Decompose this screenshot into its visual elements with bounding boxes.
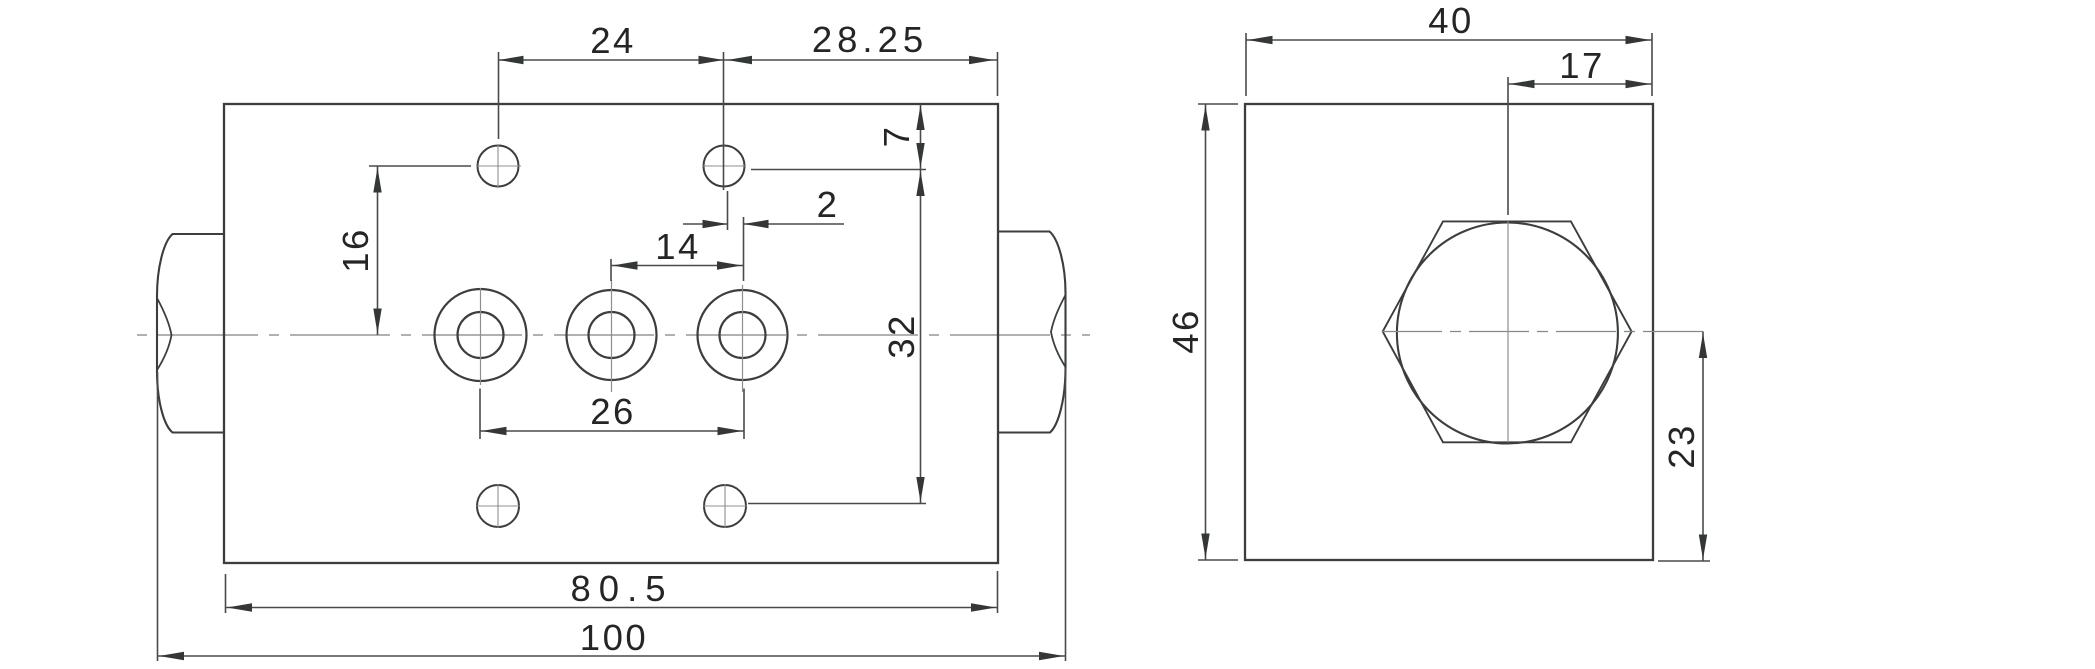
svg-text:26: 26 xyxy=(590,391,636,432)
dim 80.5 extension lines xyxy=(225,574,227,613)
svg-text:7: 7 xyxy=(876,125,917,148)
port circle P1 inner xyxy=(458,312,504,358)
dim 24 extension lines xyxy=(498,52,500,139)
dim 2 lines with outside arrows xyxy=(683,223,728,225)
svg-text:14: 14 xyxy=(655,226,701,267)
svg-text:46: 46 xyxy=(1165,308,1206,354)
port circle P2 outer xyxy=(567,290,657,380)
dim 17 line xyxy=(1508,83,1652,85)
hole bottom-left crosshairs xyxy=(476,505,520,507)
svg-text:17: 17 xyxy=(1559,45,1605,86)
dim 80.5 line xyxy=(226,607,998,609)
dim 17 extension line (hex center vertical) xyxy=(1507,77,1509,215)
svg-text:24: 24 xyxy=(590,20,636,61)
dim 2 extension lines xyxy=(727,191,729,230)
port circle P3 inner xyxy=(720,312,766,358)
hexagon plug xyxy=(1383,221,1632,442)
dim 46 line xyxy=(1205,104,1207,560)
mounting hole top-left xyxy=(478,146,519,187)
dim 16 line xyxy=(377,166,379,335)
square block outline xyxy=(1245,104,1653,560)
svg-text:80.5: 80.5 xyxy=(570,568,673,609)
dim 40 extension lines xyxy=(1245,33,1247,96)
left hex plug facet arcs xyxy=(157,298,172,370)
plate outline xyxy=(224,104,998,563)
dim 32 line xyxy=(920,170,922,504)
svg-text:2: 2 xyxy=(817,184,840,225)
port circle P2 inner xyxy=(589,312,635,358)
svg-text:100: 100 xyxy=(580,617,648,658)
port circle P3 outer xyxy=(698,290,788,380)
right hex plug facet arcs xyxy=(1051,295,1066,367)
leader from top-right hole xyxy=(751,169,926,171)
centerline main horizontal xyxy=(131,334,1090,336)
port P1 vertical crosshair xyxy=(480,288,482,385)
dim 24 line xyxy=(499,59,724,61)
mounting hole bottom-left xyxy=(477,485,519,527)
dim 14 extension line left xyxy=(610,259,612,281)
dim 28.25 line xyxy=(724,59,998,61)
left hex plug head outline xyxy=(157,234,224,433)
hexagon horizontal centerline xyxy=(1382,331,1710,333)
dim 100 extension lines xyxy=(157,372,159,661)
dim 23 extension line bottom xyxy=(1658,560,1710,562)
inscribed circle xyxy=(1397,223,1618,444)
dim 100 line xyxy=(158,655,1066,657)
port P3 vertical crosshair xyxy=(742,285,744,392)
right hex plug head outline xyxy=(998,232,1066,433)
svg-text:40: 40 xyxy=(1428,0,1474,41)
dim 16 leader from top-left hole xyxy=(369,165,471,167)
port P2 vertical crosshair xyxy=(611,280,613,392)
mounting hole bottom-right xyxy=(704,485,746,527)
leader from bottom-right hole xyxy=(748,503,926,505)
hexagon vertical centerline xyxy=(1507,221,1509,442)
dim 26 line xyxy=(480,430,744,432)
hole bottom-right crosshairs xyxy=(703,505,747,507)
svg-text:28.25: 28.25 xyxy=(812,19,928,60)
mounting hole top-right xyxy=(704,146,745,187)
dim 28.25 extension right xyxy=(997,52,999,96)
dim 7 line xyxy=(920,104,922,169)
dim 14 line xyxy=(611,265,744,267)
hole top-right crosshair horizontal xyxy=(703,165,746,167)
svg-text:32: 32 xyxy=(881,313,922,359)
dim 40 line xyxy=(1246,39,1652,41)
port circle P1 outer xyxy=(435,289,527,381)
hole top-left crosshairs xyxy=(477,165,521,167)
dim 26 extension lines xyxy=(479,389,481,440)
svg-text:23: 23 xyxy=(1661,423,1702,469)
dim 23 line xyxy=(1702,332,1704,562)
dim 46 extension lines xyxy=(1198,103,1238,105)
svg-text:16: 16 xyxy=(335,227,376,273)
